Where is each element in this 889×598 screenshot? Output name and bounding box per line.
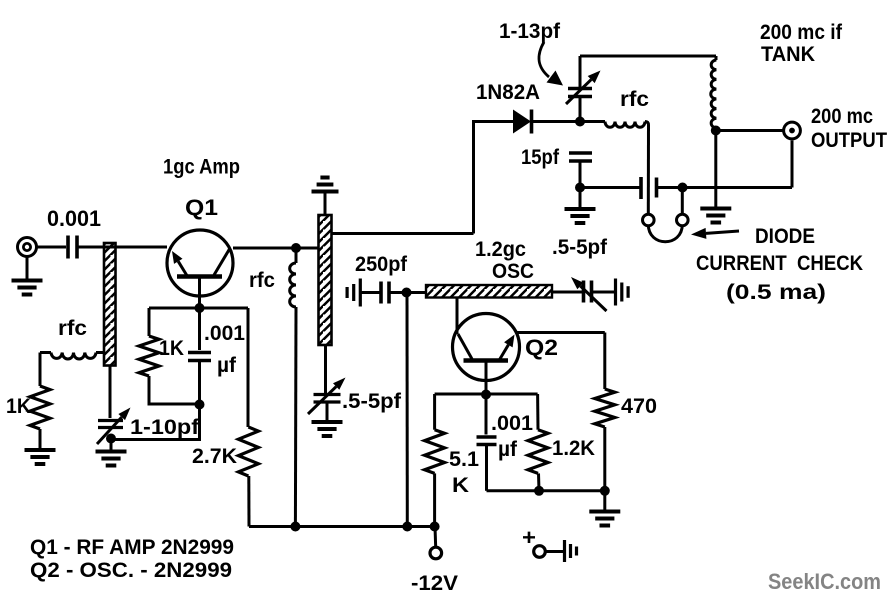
wire Q2 ground bus: [487, 489, 605, 492]
input coax connector J1: [18, 238, 37, 257]
label TANK: [761, 43, 815, 66]
svg-text:µf: µf: [217, 354, 237, 377]
arrow to 1-13pf: [539, 42, 563, 86]
svg-text:1.2K: 1.2K: [552, 437, 595, 460]
svg-text:.001: .001: [204, 322, 245, 345]
svg-text:1N82A: 1N82A: [476, 81, 540, 104]
label K (5.1K): [452, 474, 469, 497]
ground (15pf): [565, 188, 596, 224]
node H (470 bottom): [600, 486, 610, 496]
svg-text:1-13pf: 1-13pf: [499, 20, 561, 43]
resistor R 5.1K: [425, 394, 445, 527]
svg-text:rfc: rfc: [249, 269, 275, 292]
ground (tank): [700, 209, 731, 223]
ground (1-10pf): [96, 439, 127, 466]
tank coil (200 mc if TANK): [711, 56, 717, 128]
capacitor 250pf: [361, 282, 389, 304]
ground (input connector): [12, 257, 43, 295]
label OSC: [492, 260, 534, 283]
jack terminal right: [677, 188, 689, 226]
jack shorting link: [648, 225, 682, 242]
svg-text:0.001: 0.001: [47, 206, 101, 231]
wire 470 to ground rail: [603, 427, 606, 491]
wire L2 bottom to C5: [324, 345, 327, 393]
wire node E to OSC strip: [407, 291, 427, 294]
variable capacitor 1-13pf: [566, 56, 601, 122]
label 0.001: [47, 206, 101, 231]
wire + terminal: [545, 550, 563, 553]
label 200 mc (output): [811, 105, 873, 128]
svg-text:2.7K: 2.7K: [192, 445, 237, 468]
feedthrough terminal (osc): [616, 279, 629, 306]
label .5-5pf (osc): [552, 236, 608, 259]
svg-text:1-10pf: 1-10pf: [130, 416, 200, 439]
label rfc (Q1): [249, 269, 275, 292]
strip line L3 OSC (hatched): [426, 285, 552, 298]
label uf (Q2): [498, 438, 518, 461]
svg-text:470: 470: [621, 395, 657, 418]
label 1N82A: [476, 81, 540, 104]
-12V terminal: [430, 547, 442, 559]
svg-text:Q2: Q2: [525, 335, 558, 360]
svg-text:1K: 1K: [159, 337, 184, 360]
ground (Q2 bus): [589, 491, 620, 526]
note Q1 type: [30, 536, 234, 559]
wire strip line to C2: [109, 366, 112, 419]
label Q2: [525, 335, 558, 360]
node J (riser rail): [402, 522, 412, 532]
wire riser node E to rail: [406, 293, 409, 527]
node N (tank bottom): [711, 126, 721, 136]
node C (Q1 emitter): [195, 303, 205, 313]
node M (15pf bottom): [575, 183, 585, 193]
label uf (Q1): [217, 354, 237, 377]
output coax connector: [784, 122, 801, 139]
wire rfc to R1: [39, 353, 42, 387]
svg-text:200 mc: 200 mc: [811, 105, 873, 128]
label CURRENT CHECK: [696, 252, 863, 275]
label Q1: [185, 195, 218, 220]
label 1.2K: [552, 437, 595, 460]
svg-text:200 mc if: 200 mc if: [760, 21, 843, 44]
svg-text:1gc Amp: 1gc Amp: [163, 156, 240, 179]
node L (detector): [575, 117, 585, 127]
jack terminal left: [643, 214, 655, 226]
rfc choke (input bias): [40, 353, 104, 360]
wire Q1 collector: [233, 247, 319, 250]
label 1-10pf: [130, 416, 200, 439]
wire L2 to riser: [332, 232, 474, 235]
wire emitter loop bottom: [149, 403, 200, 406]
node G (1.2K bottom): [534, 486, 544, 496]
wire riser to diode: [474, 122, 514, 234]
node B (Q1 collector / rfc): [291, 243, 301, 253]
resistor R 2.7K: [238, 427, 258, 476]
label .5-5pf (L2): [342, 390, 402, 413]
label rfc (input): [58, 317, 87, 340]
wire input to C1: [37, 246, 67, 249]
wire -12V rail: [249, 525, 435, 528]
label 250pf: [355, 253, 408, 276]
svg-text:(0.5 ma): (0.5 ma): [726, 281, 826, 304]
wire emitter loop top: [149, 307, 248, 310]
wire node O to output shield: [683, 141, 793, 188]
ground (input 1K): [25, 429, 56, 464]
svg-text:CURRENT CHECK: CURRENT CHECK: [696, 252, 863, 275]
svg-text:1K: 1K: [6, 395, 31, 418]
svg-text:Q2 - OSC. - 2N2999: Q2 - OSC. - 2N2999: [30, 559, 232, 582]
wire 250pf to node E: [390, 291, 407, 294]
svg-text:rfc: rfc: [58, 317, 87, 340]
label 15pf: [521, 146, 560, 169]
transistor Q1: [167, 230, 233, 308]
variable capacitor .5-5pf (osc): [552, 277, 607, 311]
node E (osc line): [402, 288, 412, 298]
resistor R 1K (Q1 emitter): [139, 308, 159, 406]
node O (jack right): [678, 183, 688, 193]
svg-text:5.1: 5.1: [449, 448, 479, 471]
svg-text:rfc: rfc: [620, 88, 649, 111]
wire C1 to Q1: [78, 246, 167, 249]
label -12V: [411, 572, 458, 595]
feedthrough terminal (+ supply): [565, 540, 577, 562]
wire top tank: [580, 55, 716, 58]
label .001 (Q1): [204, 322, 245, 345]
node K (5.1K rail): [430, 522, 440, 532]
svg-text:+: +: [522, 525, 536, 550]
label 2.7K: [192, 445, 237, 468]
svg-text:15pf: 15pf: [521, 146, 560, 169]
node F (Q2 emitter): [481, 390, 491, 400]
rfc choke (Q1 collector, vertical): [290, 248, 296, 527]
svg-text:-12V: -12V: [411, 572, 458, 595]
capacitor .001 uf (Q2): [477, 395, 497, 491]
wire Q2 collector to 470: [516, 333, 605, 390]
svg-text:µf: µf: [498, 438, 518, 461]
label (0.5 ma): [726, 281, 826, 304]
label 1.2gc: [475, 238, 526, 261]
wire 2.7K branch: [248, 308, 249, 527]
diode 1N82A: [513, 110, 580, 134]
svg-text:.5-5pf: .5-5pf: [552, 236, 608, 259]
node A (1-10pf/ground): [106, 434, 116, 444]
node D (emitter RC bottom): [195, 400, 205, 410]
resistor R 1K (input): [30, 386, 50, 429]
variable capacitor .5-5pf (L2): [308, 378, 346, 415]
label 200 mc if: [760, 21, 843, 44]
svg-text:.5-5pf: .5-5pf: [342, 390, 402, 413]
label rfc (detector): [620, 88, 649, 111]
svg-text:.001: .001: [491, 412, 533, 435]
strip line L1 (input, hatched): [104, 243, 116, 366]
feedthrough terminal (250pf): [347, 279, 360, 307]
svg-text:DIODE: DIODE: [755, 225, 815, 248]
wire OSC strip to Q2: [456, 298, 459, 335]
wire tank to output: [716, 129, 783, 132]
rfc choke (detector): [580, 122, 649, 215]
label DIODE: [755, 225, 815, 248]
transistor Q2: [453, 314, 520, 395]
label 1K (Q1): [159, 337, 184, 360]
svg-text:1.2gc: 1.2gc: [475, 238, 526, 261]
variable capacitor 1-10pf: [97, 408, 131, 445]
svg-text:TANK: TANK: [761, 43, 815, 66]
strip line L2 (hatched, vertical): [319, 215, 332, 345]
label 470: [621, 395, 657, 418]
resistor R 470: [595, 389, 615, 427]
resistor R 1.2K: [528, 394, 548, 491]
capacitor .001 uf (Q1): [188, 308, 211, 405]
label 1-13pf: [499, 20, 561, 43]
node I (rfc rail): [290, 522, 300, 532]
note Q2 type: [30, 559, 232, 582]
label 1K (input): [6, 395, 31, 418]
capacitor 0.001 (input): [68, 236, 77, 259]
watermark SeekIC.com: [768, 569, 881, 594]
svg-text:OUTPUT: OUTPUT: [811, 129, 887, 152]
label 1gc Amp: [163, 156, 240, 179]
wire RC bottom to 1-10pf node: [111, 405, 200, 440]
ground (above strip line 2, points up): [312, 178, 339, 217]
svg-text:OSC: OSC: [492, 260, 534, 283]
svg-text:250pf: 250pf: [355, 253, 408, 276]
supply terminal (+): [534, 546, 546, 558]
arrow to jack: [691, 228, 739, 239]
svg-text:SeekIC.com: SeekIC.com: [768, 569, 881, 594]
svg-text:Q1: Q1: [185, 195, 218, 220]
label + (supply): [522, 525, 536, 550]
svg-text:Q1 - RF AMP 2N2999: Q1 - RF AMP 2N2999: [30, 536, 234, 559]
label OUTPUT: [811, 129, 887, 152]
capacitor (jack bypass): [580, 177, 683, 199]
svg-text:K: K: [452, 474, 469, 497]
label .001 (Q2): [491, 412, 533, 435]
wire emitter bus: [435, 393, 538, 396]
wire to feedthrough (osc): [592, 291, 615, 294]
label 5.1: [449, 448, 479, 471]
wire tank to ground: [714, 131, 717, 207]
capacitor 15pf: [569, 153, 592, 188]
wire to -12V terminal: [434, 527, 438, 548]
ground (.5-5pf L2): [312, 402, 343, 436]
